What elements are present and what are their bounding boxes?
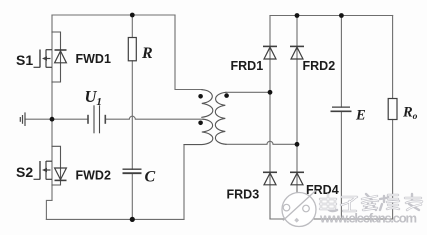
wire FRD1-FRD3 column [269, 16, 271, 220]
diode FRD3 [263, 172, 277, 185]
svg-text:R: R [141, 45, 153, 62]
wire R to C [131, 61, 133, 169]
resistor Ro [388, 99, 397, 120]
wire bottom-right rail [270, 218, 393, 220]
wire FRD2-FRD4 column [296, 16, 298, 220]
svg-text:S1: S1 [16, 52, 33, 68]
junction node top rail / FRD2 [295, 13, 300, 18]
resistor R [128, 38, 136, 61]
wire secondary top to bridge [226, 91, 270, 93]
watermark logo circle [282, 191, 316, 227]
capacitor C [123, 169, 142, 173]
junction node primary top dot [198, 94, 203, 99]
battery U1 [88, 105, 105, 133]
transistor S2 parallel loop [52, 146, 61, 185]
watermark chinese characters [320, 194, 422, 211]
junction node secondary bottom / FRD2 column [295, 142, 300, 147]
svg-text:FWD1: FWD1 [76, 52, 111, 66]
ground [20, 112, 25, 126]
wire secondary bottom to bridge with hop over FRD1 column [226, 141, 297, 144]
svg-text:www.elecfans.com: www.elecfans.com [319, 211, 417, 226]
svg-text:FRD3: FRD3 [227, 188, 260, 202]
wire node A to battery [52, 118, 88, 120]
svg-text:U1: U1 [85, 87, 102, 108]
wire primary bottom return [183, 145, 185, 220]
junction node secondary top / FRD1 column [268, 90, 273, 95]
junction node top rail / E [339, 13, 344, 18]
wire E branch lower [340, 111, 342, 219]
wire Ro branch lower [392, 120, 394, 220]
diode FWD1 (body diode of S1) [55, 50, 67, 63]
diode FRD2 [290, 46, 304, 59]
mosfet S2 [34, 161, 53, 180]
wire S2 source jog to bottom rail [46, 200, 52, 219]
svg-text:FRD2: FRD2 [303, 59, 336, 73]
junction node top rail / R [130, 13, 135, 18]
wire bottom-left rail [46, 218, 184, 220]
transformer T1 primary winding upper [202, 90, 213, 118]
wire R branch top [131, 15, 133, 38]
junction node primary lower dot [198, 121, 203, 126]
svg-text:E: E [355, 108, 366, 124]
wire ground to node A [25, 118, 52, 120]
wire C to bottom rail [131, 173, 133, 219]
svg-text:S2: S2 [16, 164, 33, 180]
transformer T1 primary winding lower [184, 119, 213, 144]
wire rail to transformer primary top [175, 15, 202, 90]
mosfet S1 [34, 50, 53, 68]
svg-text:Ro: Ro [402, 105, 418, 123]
svg-text:FRD1: FRD1 [231, 59, 264, 73]
transformer T1 secondary winding [215, 92, 226, 144]
capacitor E [331, 107, 352, 111]
wire top-left rail [52, 14, 175, 16]
wire main left vertical (drain-source branch) [51, 15, 53, 200]
diode FRD1 [263, 46, 277, 59]
svg-text:C: C [145, 169, 156, 186]
svg-text:FWD2: FWD2 [76, 169, 111, 183]
wire top-right rail [270, 15, 393, 17]
junction node bottom rail / C [130, 217, 135, 222]
junction node A (ground/battery on left column) [50, 117, 55, 122]
wire Ro branch upper [392, 16, 394, 99]
wire battery to center tap with hop over RC branch [105, 116, 203, 119]
junction node secondary dot [224, 93, 229, 98]
wire E branch upper [340, 16, 342, 108]
transistor S1 parallel loop [52, 32, 61, 82]
diode FWD2 (body diode of S2) [55, 168, 67, 180]
diode FRD4 [290, 172, 304, 185]
